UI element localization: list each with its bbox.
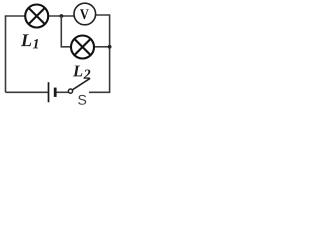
wire: top left horizontal to lamp L1 xyxy=(5,15,26,17)
node A junction dot xyxy=(60,14,64,18)
wire: bottom left horizontal to battery xyxy=(6,91,48,93)
switch S: lever arm xyxy=(72,78,90,90)
lamp L2 (circle with X) xyxy=(71,36,94,59)
wire: left side vertical xyxy=(5,16,7,92)
switch S: pivot circle xyxy=(68,89,72,93)
svg-text:L1: L1 xyxy=(20,30,40,52)
wire: lamp L1 to voltmeter xyxy=(48,15,75,17)
svg-text:S: S xyxy=(77,92,86,107)
voltmeter U1 (circle with V) xyxy=(74,3,96,25)
wire: branch down from node A to lamp L2 xyxy=(61,16,71,47)
wire: switch contact to bottom right corner xyxy=(89,91,110,93)
battery: long plate (positive) xyxy=(48,82,50,102)
lamp L1 (circle with X) xyxy=(25,5,48,28)
wire: lamp L2 right to node B xyxy=(94,46,110,48)
svg-text:V: V xyxy=(80,7,89,23)
wire: battery to switch xyxy=(57,91,69,93)
node B junction dot xyxy=(108,45,112,49)
battery: short thick plate (negative) xyxy=(54,88,57,97)
wire: voltmeter right, corner, right side vertical down xyxy=(95,15,110,92)
svg-text:L2: L2 xyxy=(72,61,91,82)
